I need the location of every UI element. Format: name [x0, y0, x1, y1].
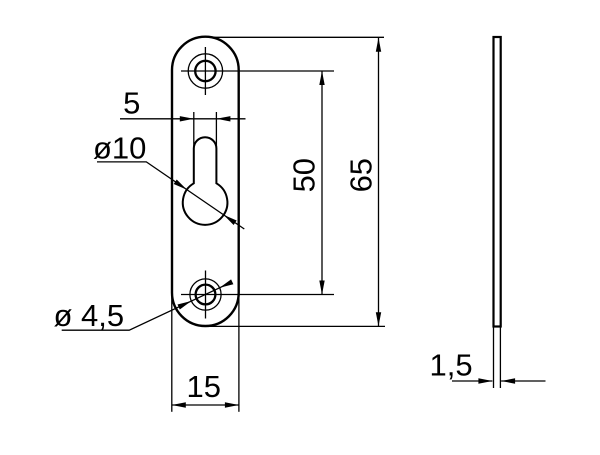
svg-text:15: 15 — [187, 369, 221, 404]
svg-text:ø10: ø10 — [93, 131, 146, 166]
svg-text:5: 5 — [123, 86, 140, 121]
svg-text:ø 4,5: ø 4,5 — [54, 298, 125, 333]
svg-text:65: 65 — [344, 158, 379, 192]
svg-text:50: 50 — [287, 158, 322, 192]
svg-text:1,5: 1,5 — [430, 348, 473, 383]
